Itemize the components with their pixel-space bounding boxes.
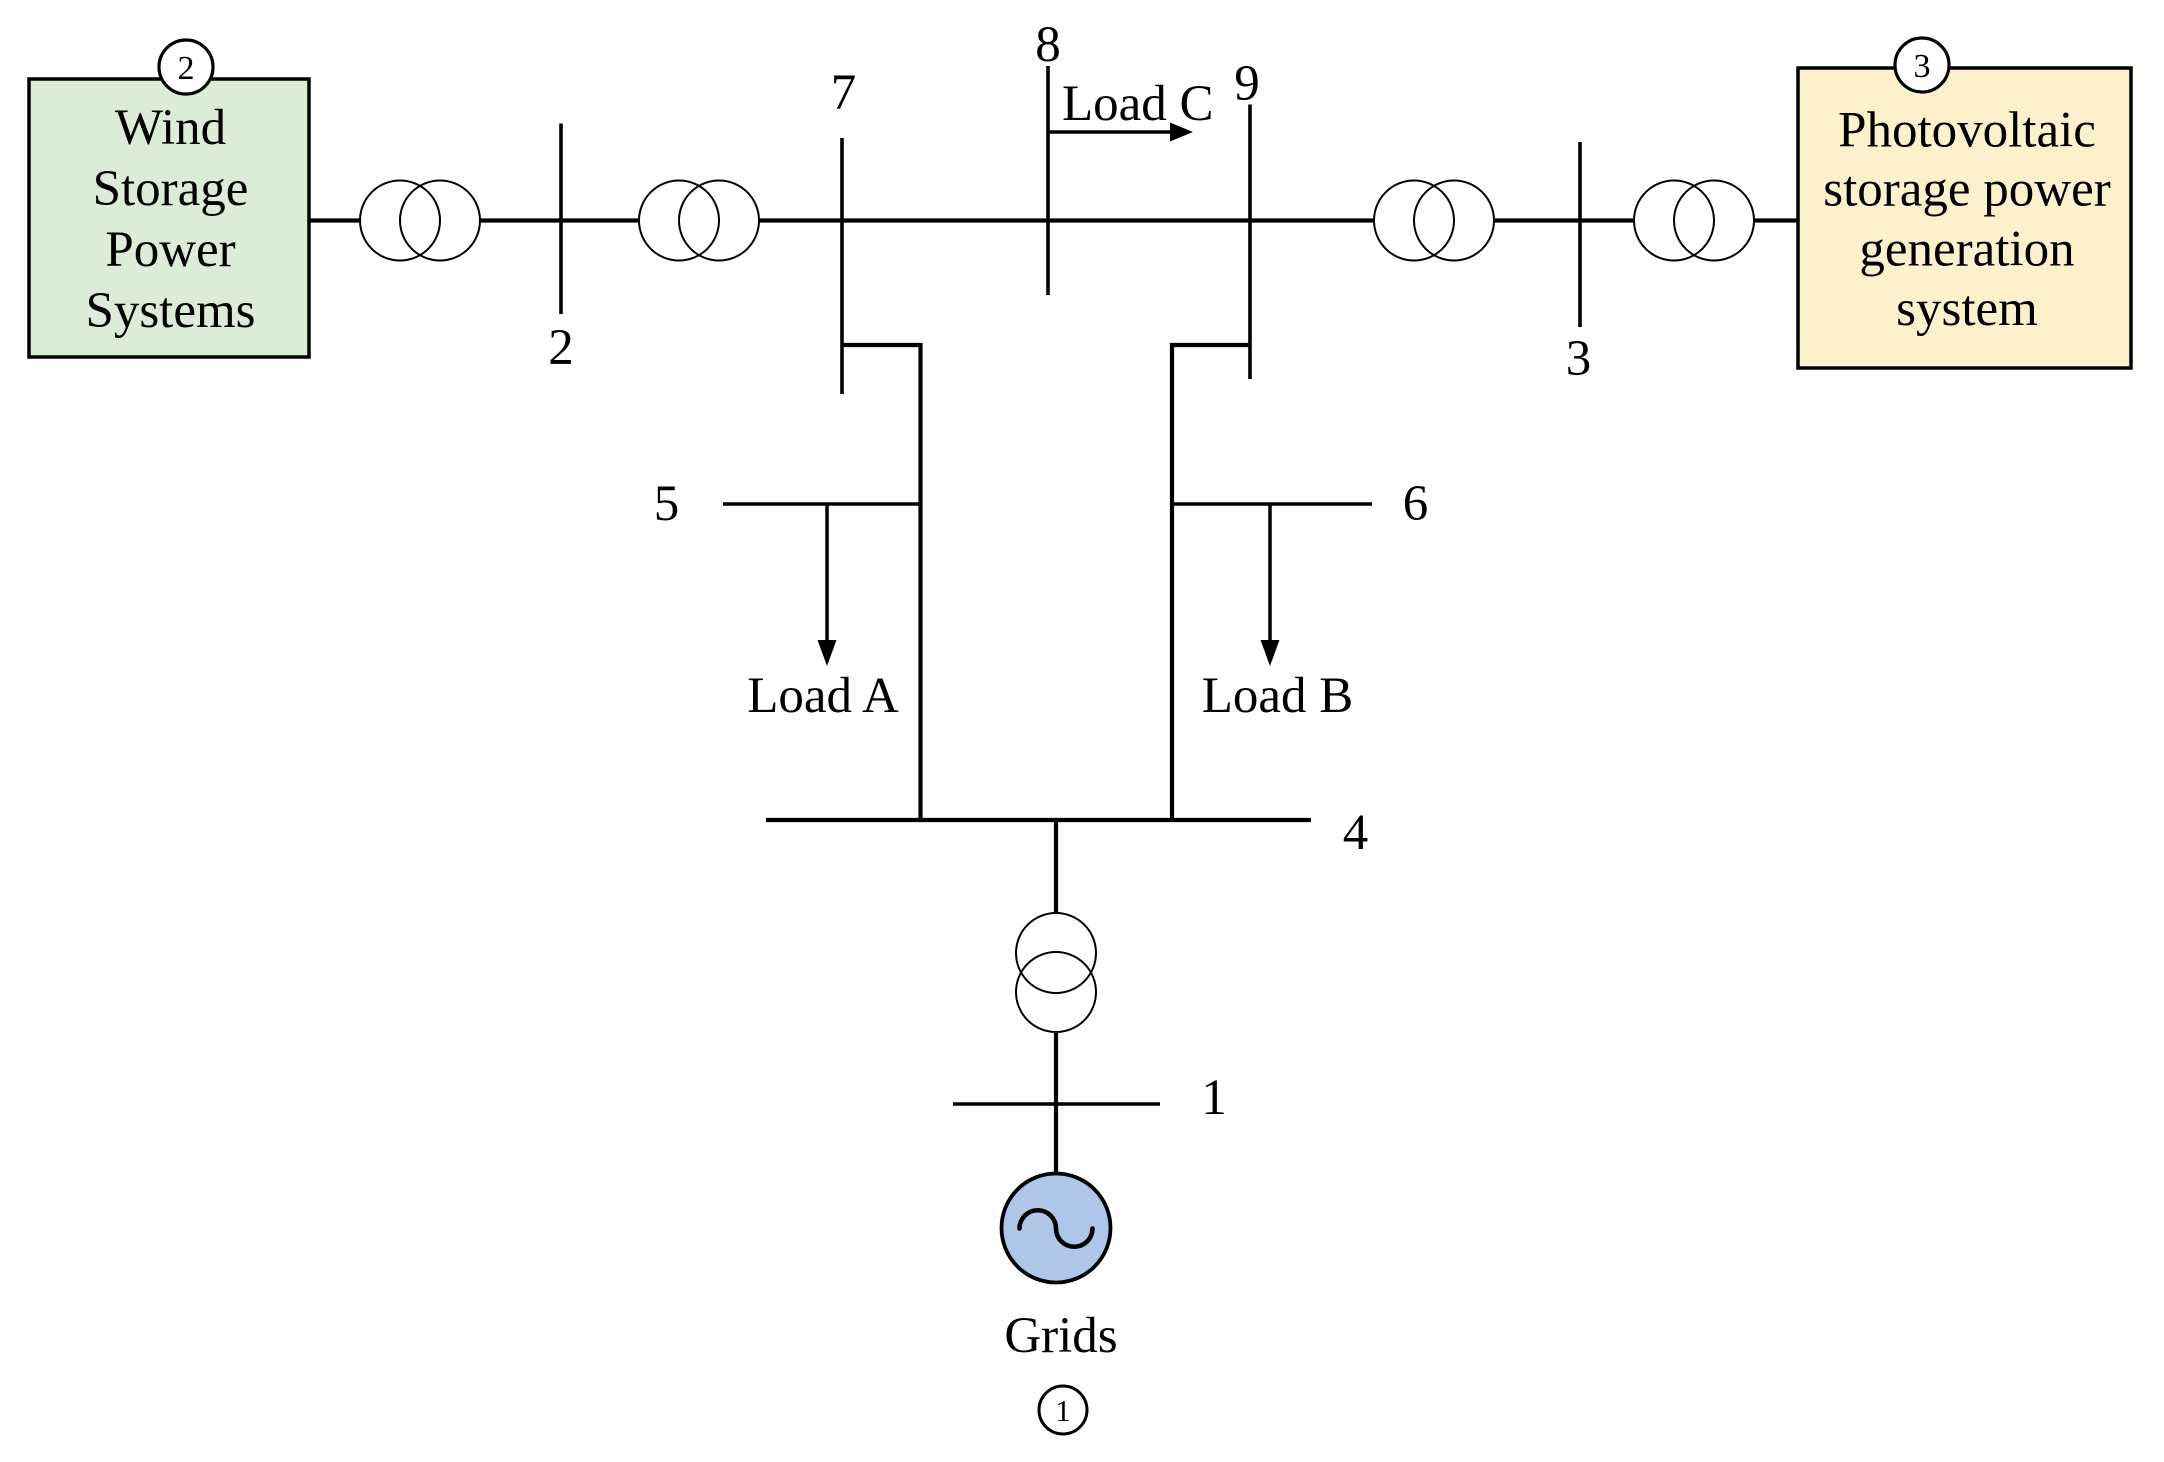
wire: grid transformer down through bus 1 to grid source [1054,1031,1058,1174]
svg-text:Power: Power [105,222,235,278]
svg-text:8: 8 [1035,17,1061,73]
svg-text:system: system [1896,281,2038,337]
svg-text:7: 7 [831,65,857,121]
sine symbol inside grid source [1020,1210,1093,1247]
transformer T2 (wind side, right) [639,181,759,261]
svg-text:Storage: Storage [93,161,249,217]
transformer T5 (grid transformer, vertical) [1016,913,1096,1032]
svg-text:Load B: Load B [1202,668,1354,724]
svg-text:generation: generation [1859,222,2074,278]
svg-text:1: 1 [1201,1070,1227,1126]
wire: bus 4 down to grid transformer [1054,820,1058,916]
svg-text:5: 5 [654,476,680,532]
box: Wind Storage Power Systems (source node 2) [29,79,309,357]
bus 5 [723,502,921,506]
bus 9 [1248,105,1252,380]
svg-text:Grids: Grids [1004,1308,1117,1364]
svg-text:3: 3 [1566,331,1592,387]
transformer T4 (PV side, right) [1634,181,1754,261]
bus 4 [766,818,1311,822]
load C arrow [1048,123,1193,142]
load A arrow [818,504,837,666]
wire: main horizontal link from wind box to PV box [309,218,1798,222]
box: Photovoltaic storage power generation system (source node 3) [1798,68,2131,368]
svg-text:3: 3 [1914,48,1931,85]
svg-text:2: 2 [178,50,195,87]
bus 7 [840,138,844,394]
transformer T3 (PV side, left) [1374,181,1494,261]
bus 3 [1578,142,1582,327]
wire: branch elbow from bus 9 down to bus 4 [1172,345,1250,820]
svg-text:6: 6 [1403,476,1429,532]
badge node 1 (below Grids) [1039,1386,1087,1434]
load B arrow [1261,504,1280,666]
badge node 3 (on PV box) [1895,38,1949,92]
badge node 2 (on wind box) [159,40,213,94]
label: Wind Storage Power Systems [85,100,255,339]
bus 2 [559,124,563,315]
bus 6 [1172,502,1372,506]
svg-text:9: 9 [1234,56,1260,112]
svg-text:Wind: Wind [115,100,226,156]
svg-text:2: 2 [548,320,574,376]
label: Photovoltaic storage power generation system [1823,103,2110,338]
svg-text:Systems: Systems [85,283,255,339]
svg-text:Load A: Load A [747,668,899,724]
svg-text:Load C: Load C [1062,76,1214,132]
svg-text:1: 1 [1055,1393,1071,1428]
transformer T1 (wind side, left) [360,181,480,261]
grid source G1 (AC source circle) [1002,1174,1111,1283]
svg-text:4: 4 [1343,805,1369,861]
svg-text:storage power: storage power [1823,162,2110,218]
wire: branch elbow from bus 7 down to bus 4 [842,345,921,820]
bus 1 [953,1102,1160,1106]
svg-text:Photovoltaic: Photovoltaic [1838,103,2096,159]
bus 8 [1046,66,1050,295]
